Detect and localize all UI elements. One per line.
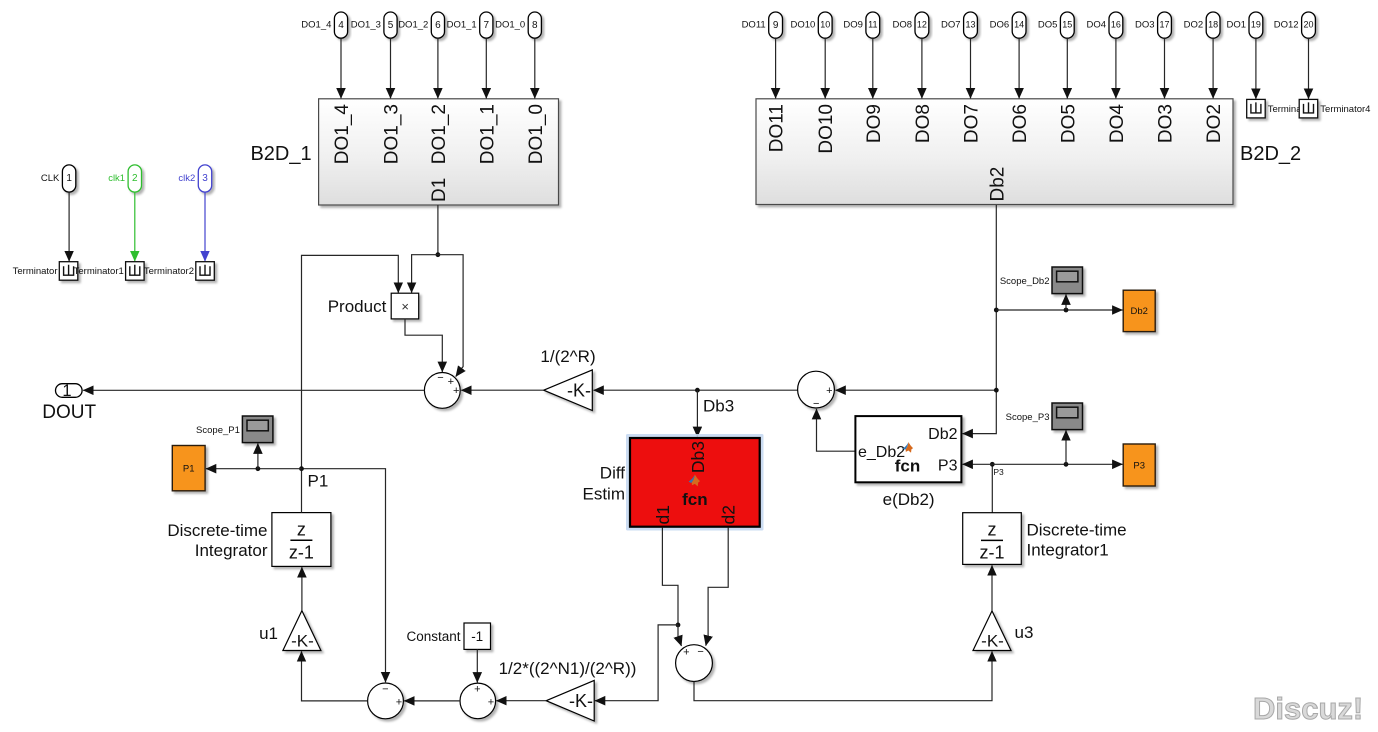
wire DO1 to Terminator3 xyxy=(1255,38,1257,99)
wire e(Db2) out to Sum xyxy=(817,409,856,451)
svg-text:Db3: Db3 xyxy=(688,441,708,473)
wire P1 feedback to Product in1 xyxy=(302,255,399,468)
svg-text:DO1_2: DO1_2 xyxy=(398,20,428,31)
matlab function block e(Db2) xyxy=(855,416,961,482)
sum Sum1 xyxy=(368,683,404,719)
wire clk1 to Terminator1 xyxy=(134,192,136,261)
svg-text:DO12: DO12 xyxy=(1274,20,1299,31)
svg-text:DO1_1: DO1_1 xyxy=(447,20,477,31)
wire u1 to Integrator xyxy=(301,567,303,610)
wire D1 to Product in2 xyxy=(412,255,438,293)
svg-text:e(Db2): e(Db2) xyxy=(883,490,935,509)
svg-text:DOUT: DOUT xyxy=(42,402,96,423)
wire Db3 into Diff Estim xyxy=(696,390,698,437)
integrator Discrete-time Integrator xyxy=(272,513,331,567)
svg-text:1: 1 xyxy=(66,173,72,184)
svg-text:DO1: DO1 xyxy=(1226,20,1246,31)
inport DO1 (19) xyxy=(1226,12,1262,38)
wire P3 to workspace P3 xyxy=(992,463,1122,465)
inport DO1_0 (8) xyxy=(495,12,541,38)
to-workspace P1 xyxy=(172,446,205,491)
svg-text:DO2: DO2 xyxy=(1204,104,1225,143)
svg-text:Db3: Db3 xyxy=(703,397,734,416)
svg-text:20: 20 xyxy=(1303,19,1313,29)
svg-text:-K-: -K- xyxy=(567,381,591,401)
wire d1 down xyxy=(662,528,678,625)
junction Scope_Db2 tap xyxy=(1064,308,1069,313)
junction D1 xyxy=(436,252,441,257)
junction Db2 main line xyxy=(994,388,999,393)
svg-text:1/(2^R): 1/(2^R) xyxy=(540,347,595,366)
svg-text:DO1_3: DO1_3 xyxy=(382,104,403,164)
inport DO8 (12) xyxy=(892,12,928,38)
svg-text:B2D_1: B2D_1 xyxy=(250,143,311,165)
wire to Scope_P1 xyxy=(257,444,259,469)
inport DO4 (16) xyxy=(1086,12,1122,38)
svg-text:DO6: DO6 xyxy=(1010,104,1031,143)
svg-text:DO9: DO9 xyxy=(864,104,885,143)
svg-text:2: 2 xyxy=(132,173,138,184)
inport DO11 (9) xyxy=(742,12,783,38)
svg-text:DO1_1: DO1_1 xyxy=(477,104,498,164)
svg-text:Db2: Db2 xyxy=(1130,306,1147,317)
inport DO12 (20) xyxy=(1274,12,1316,38)
svg-text:DO6: DO6 xyxy=(990,20,1010,31)
svg-text:DO11: DO11 xyxy=(767,104,788,152)
svg-text:Product: Product xyxy=(328,297,387,316)
wire DO12 to Terminator4 xyxy=(1308,38,1310,99)
svg-text:DO8: DO8 xyxy=(913,104,934,143)
wire DO10 to B2D_2 xyxy=(824,38,826,98)
svg-text:+: + xyxy=(474,683,480,695)
outport DOUT (1) xyxy=(42,382,96,423)
wire Sum to DOUT xyxy=(83,389,424,391)
svg-text:z-1: z-1 xyxy=(289,543,314,563)
inport DO1_3 (5) xyxy=(351,12,397,38)
svg-text:z: z xyxy=(988,520,997,540)
svg-text:3: 3 xyxy=(202,173,208,184)
inport clk1 (2) xyxy=(108,165,141,192)
svg-text:Estim: Estim xyxy=(583,485,626,504)
svg-text:DO7: DO7 xyxy=(941,20,961,31)
wire gain to Sum2 xyxy=(496,700,546,702)
svg-text:Diff: Diff xyxy=(600,464,625,483)
junction d1 xyxy=(676,623,681,628)
wire DO1_1 to B2D_1 xyxy=(485,38,487,98)
svg-text:DO5: DO5 xyxy=(1038,20,1058,31)
svg-text:Discuz!: Discuz! xyxy=(1253,691,1363,726)
svg-text:d2: d2 xyxy=(719,505,739,524)
inport DO2 (18) xyxy=(1184,12,1220,38)
wire to Scope_P3 xyxy=(1065,430,1067,464)
gain 1/(2^R) xyxy=(540,347,595,411)
wire u3 to Integrator1 xyxy=(991,565,993,611)
svg-text:P3: P3 xyxy=(938,457,958,474)
svg-text:4: 4 xyxy=(338,20,344,31)
svg-text:Terminator1: Terminator1 xyxy=(74,266,124,277)
junction Scope_P1 tap xyxy=(256,466,261,471)
wire clk2 to Terminator2 xyxy=(204,192,206,261)
wire Sum3 to u3 xyxy=(694,651,992,700)
svg-text:fcn: fcn xyxy=(895,456,921,475)
svg-text:Db2: Db2 xyxy=(928,426,957,443)
svg-text:DO8: DO8 xyxy=(892,20,912,31)
sum Sum2 xyxy=(460,683,496,719)
svg-text:1/2*((2^N1)/(2^R)): 1/2*((2^N1)/(2^R)) xyxy=(499,659,637,678)
gain u1 xyxy=(259,611,321,651)
svg-text:DO10: DO10 xyxy=(790,20,815,31)
wire CLK to Terminator xyxy=(68,192,70,261)
inport DO1_1 (7) xyxy=(447,12,493,38)
svg-text:Discrete-time: Discrete-time xyxy=(167,521,267,540)
svg-text:DO4: DO4 xyxy=(1107,104,1128,144)
svg-text:-K-: -K- xyxy=(981,632,1004,651)
sum Add2 (right) xyxy=(798,371,835,410)
wire Integrator out up xyxy=(301,469,303,513)
wire DO11 to B2D_2 xyxy=(775,38,777,98)
constant block Constant (-1) xyxy=(406,623,490,649)
svg-text:Constant: Constant xyxy=(406,629,460,644)
svg-text:DO2: DO2 xyxy=(1184,20,1204,31)
svg-text:Scope_P1: Scope_P1 xyxy=(196,425,240,436)
wire DO1_2 to B2D_1 xyxy=(437,38,439,98)
wire DO2 to B2D_2 xyxy=(1212,38,1214,98)
gain u3 xyxy=(973,611,1033,651)
svg-text:8: 8 xyxy=(532,20,538,31)
svg-text:DO11: DO11 xyxy=(742,20,766,31)
svg-text:DO1_4: DO1_4 xyxy=(332,104,353,165)
wire D1 to Sum xyxy=(438,255,463,377)
inport CLK (1) xyxy=(41,165,76,192)
matlab function block Diff Estim (red) xyxy=(630,438,760,527)
wire Db2 to workspace Db2 xyxy=(996,309,1122,311)
wire d2 into Sum3 xyxy=(706,528,728,646)
wire P1 to Sum1 xyxy=(302,469,386,683)
svg-text:−: − xyxy=(437,372,443,384)
matlab icon Diff Estim xyxy=(689,475,700,487)
svg-text:+: + xyxy=(488,697,494,709)
inport DO1_2 (6) xyxy=(398,12,444,38)
svg-text:DO7: DO7 xyxy=(962,104,983,143)
subsystem B2D_2 xyxy=(756,99,1301,205)
svg-text:DO1_0: DO1_0 xyxy=(495,20,525,31)
scope Scope_Db2 xyxy=(1000,267,1083,294)
svg-text:+: + xyxy=(453,385,459,397)
svg-text:-K-: -K- xyxy=(569,691,593,711)
svg-text:+: + xyxy=(396,697,402,709)
junction Scope_P3 tap xyxy=(1064,462,1069,467)
svg-text:5: 5 xyxy=(388,20,394,31)
wire Product to Sum xyxy=(405,319,442,372)
wire DO7 to B2D_2 xyxy=(970,38,972,98)
integrator Discrete-time Integrator1 xyxy=(963,513,1022,565)
inport DO10 (10) xyxy=(790,12,832,38)
wire D1 down from B2D_1 xyxy=(437,205,439,255)
svg-text:-K-: -K- xyxy=(291,632,314,651)
subsystem B2D_1 xyxy=(250,99,558,205)
svg-text:P3: P3 xyxy=(1133,460,1145,471)
wire Sum1 to u1 xyxy=(302,651,368,701)
svg-text:15: 15 xyxy=(1062,19,1072,29)
svg-text:19: 19 xyxy=(1251,19,1261,29)
svg-text:D1: D1 xyxy=(429,178,450,202)
junction P3 xyxy=(990,462,995,467)
svg-text:clk2: clk2 xyxy=(178,173,195,184)
svg-text:CLK: CLK xyxy=(41,173,60,184)
svg-text:1: 1 xyxy=(62,382,71,400)
product block Product xyxy=(328,293,419,319)
inport DO9 (11) xyxy=(843,12,879,38)
svg-text:fcn: fcn xyxy=(682,490,708,509)
svg-text:P3: P3 xyxy=(993,467,1004,477)
svg-text:6: 6 xyxy=(435,20,441,31)
wire P3 to e(Db2) xyxy=(963,463,993,465)
svg-text:Db2: Db2 xyxy=(987,167,1008,202)
terminator Terminator xyxy=(13,262,78,281)
svg-text:DO9: DO9 xyxy=(843,20,863,31)
wire d1 into Sum3 xyxy=(678,625,681,646)
inport clk2 (3) xyxy=(178,165,211,192)
svg-text:9: 9 xyxy=(773,20,779,31)
svg-text:16: 16 xyxy=(1111,19,1121,29)
svg-text:−: − xyxy=(382,684,388,696)
svg-text:Scope_Db2: Scope_Db2 xyxy=(1000,276,1050,287)
terminator Terminator2 xyxy=(144,262,214,281)
wire Db2 from B2D_2 to e(Db2) xyxy=(963,205,997,434)
wire DO5 to B2D_2 xyxy=(1066,38,1068,98)
svg-text:u1: u1 xyxy=(259,624,278,643)
svg-text:DO5: DO5 xyxy=(1058,104,1079,143)
wire DO6 to B2D_2 xyxy=(1018,38,1020,98)
svg-text:DO1_2: DO1_2 xyxy=(429,104,450,164)
svg-text:+: + xyxy=(683,646,689,658)
svg-text:u3: u3 xyxy=(1015,623,1034,642)
junction P1 xyxy=(299,466,304,471)
wire junction to gain 1/(2^R) xyxy=(594,389,698,391)
svg-text:18: 18 xyxy=(1208,19,1218,29)
svg-text:Scope_P3: Scope_P3 xyxy=(1006,412,1050,423)
scope Scope_P3 xyxy=(1006,403,1083,430)
svg-text:clk1: clk1 xyxy=(108,173,125,184)
svg-text:z-1: z-1 xyxy=(979,543,1004,563)
svg-text:DO1_4: DO1_4 xyxy=(301,20,331,31)
wire Sum1(right) to junction Db3 xyxy=(697,389,797,391)
wire to Scope_Db2 xyxy=(1065,295,1067,311)
wire d1 to gain 1/2*((2^N1)/(2^R)) xyxy=(595,625,678,701)
terminator Terminator1 xyxy=(74,262,144,281)
sum Sum3 (d1-d2) xyxy=(676,645,713,682)
to-workspace Db2 xyxy=(1123,290,1155,331)
svg-text:×: × xyxy=(401,299,409,314)
wire DO1_4 to B2D_1 xyxy=(340,38,342,98)
wire DO4 to B2D_2 xyxy=(1115,38,1117,98)
svg-text:13: 13 xyxy=(965,19,975,29)
svg-text:d1: d1 xyxy=(653,505,673,524)
wire P1 to workspace P1 xyxy=(206,468,302,470)
svg-text:12: 12 xyxy=(917,19,927,29)
wire Sum2 to Sum1 xyxy=(404,700,460,702)
inport DO3 (17) xyxy=(1135,12,1171,38)
inport DO5 (15) xyxy=(1038,12,1074,38)
wire gain 1/(2^R) to Sum xyxy=(461,389,543,391)
inport DO7 (13) xyxy=(941,12,977,38)
selection glow Diff Estim xyxy=(626,434,764,531)
svg-text:-1: -1 xyxy=(471,629,483,644)
terminator Terminator3 xyxy=(1247,99,1318,118)
wire DO9 to B2D_2 xyxy=(872,38,874,98)
wire DO8 to B2D_2 xyxy=(921,38,923,98)
matlab icon e(Db2) xyxy=(903,442,913,453)
svg-text:Integrator1: Integrator1 xyxy=(1027,541,1109,560)
svg-text:14: 14 xyxy=(1014,19,1024,29)
svg-text:DO10: DO10 xyxy=(816,104,837,154)
svg-text:Integrator: Integrator xyxy=(195,541,268,560)
inport DO6 (14) xyxy=(990,12,1026,38)
svg-text:11: 11 xyxy=(868,19,877,29)
wire Db2 line to Sum right xyxy=(836,389,997,391)
wire DO3 to B2D_2 xyxy=(1164,38,1166,98)
svg-text:P1: P1 xyxy=(308,472,329,491)
svg-text:+: + xyxy=(826,385,832,397)
svg-text:Terminator: Terminator xyxy=(13,266,58,277)
svg-text:Discrete-time: Discrete-time xyxy=(1027,521,1127,540)
wire Integrator1 up to P3 line xyxy=(991,464,993,512)
sum Add (DOUT) xyxy=(424,372,460,408)
svg-text:17: 17 xyxy=(1159,19,1169,29)
svg-text:10: 10 xyxy=(820,19,830,29)
junction Db3 xyxy=(695,388,700,393)
svg-text:−: − xyxy=(697,646,703,658)
junction Db2 scope tap xyxy=(994,308,999,313)
svg-text:DO1_0: DO1_0 xyxy=(526,104,547,164)
wire DO1_0 to B2D_1 xyxy=(534,38,536,98)
svg-text:B2D_2: B2D_2 xyxy=(1240,143,1301,165)
svg-text:Terminator2: Terminator2 xyxy=(144,266,194,277)
to-workspace P3 xyxy=(1123,444,1155,486)
svg-text:DO3: DO3 xyxy=(1135,20,1155,31)
inport DO1_4 (4) xyxy=(301,12,347,38)
svg-text:z: z xyxy=(297,520,306,540)
wire Constant to Sum2 xyxy=(476,649,478,682)
svg-text:DO1_3: DO1_3 xyxy=(351,20,381,31)
gain 1/2*((2^N1)/(2^R)) xyxy=(546,680,594,721)
terminator Terminator4 xyxy=(1299,99,1370,118)
svg-text:−: − xyxy=(813,398,819,410)
svg-text:DO4: DO4 xyxy=(1086,20,1106,31)
svg-text:7: 7 xyxy=(484,20,490,31)
wire DO1_3 to B2D_1 xyxy=(390,38,392,98)
svg-text:Terminator4: Terminator4 xyxy=(1320,104,1370,115)
svg-text:DO3: DO3 xyxy=(1156,104,1177,143)
svg-text:P1: P1 xyxy=(183,464,195,475)
scope Scope_P1 xyxy=(196,416,273,443)
